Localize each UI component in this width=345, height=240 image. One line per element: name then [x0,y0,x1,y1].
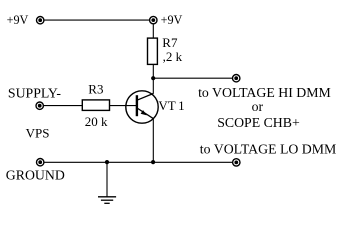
node junction ground branch [105,160,109,164]
svg-text:+9V: +9V [161,13,183,27]
terminal VOLTAGE HI [233,75,240,82]
svg-text:VPS: VPS [26,125,50,140]
transistor VT1 [126,91,158,123]
node junction collector [151,76,155,80]
wire supply to R3 [44,105,83,107]
svg-text:SUPPLY-: SUPPLY- [8,85,61,100]
wire R3 to base [110,105,136,107]
svg-text:GROUND: GROUND [6,167,65,182]
svg-text:to VOLTAGE LO DMM: to VOLTAGE LO DMM [200,141,336,156]
svg-text:1: 1 [178,98,185,113]
svg-text:R3: R3 [88,82,103,97]
wire node to HI terminal [153,77,232,79]
ground [98,197,116,204]
terminal VOLTAGE LO [233,159,240,166]
terminal +9V left [37,17,44,24]
node junction emitter [151,160,155,164]
svg-text:to VOLTAGE HI DMM: to VOLTAGE HI DMM [198,85,331,100]
wire terminal to R7 [152,24,154,38]
svg-text:,2 k: ,2 k [163,49,183,64]
label VT 1 [158,98,184,113]
svg-text:SCOPE CHB+: SCOPE CHB+ [217,115,300,130]
svg-text:or: or [252,99,264,114]
svg-text:VT: VT [158,98,175,113]
wire emitter down [152,119,154,163]
terminal GROUND [37,159,44,166]
wire R7 to collector [152,64,154,93]
terminal +9V right [150,16,157,23]
terminal SUPPLY [36,102,43,109]
svg-text:20 k: 20 k [85,114,108,129]
resistor R7 [148,38,158,64]
wire bottom horizontal [44,161,232,163]
svg-text:+9V: +9V [7,13,29,27]
wire top horizontal [44,19,149,21]
resistor R3 [82,100,109,111]
wire ground stem [106,162,108,197]
